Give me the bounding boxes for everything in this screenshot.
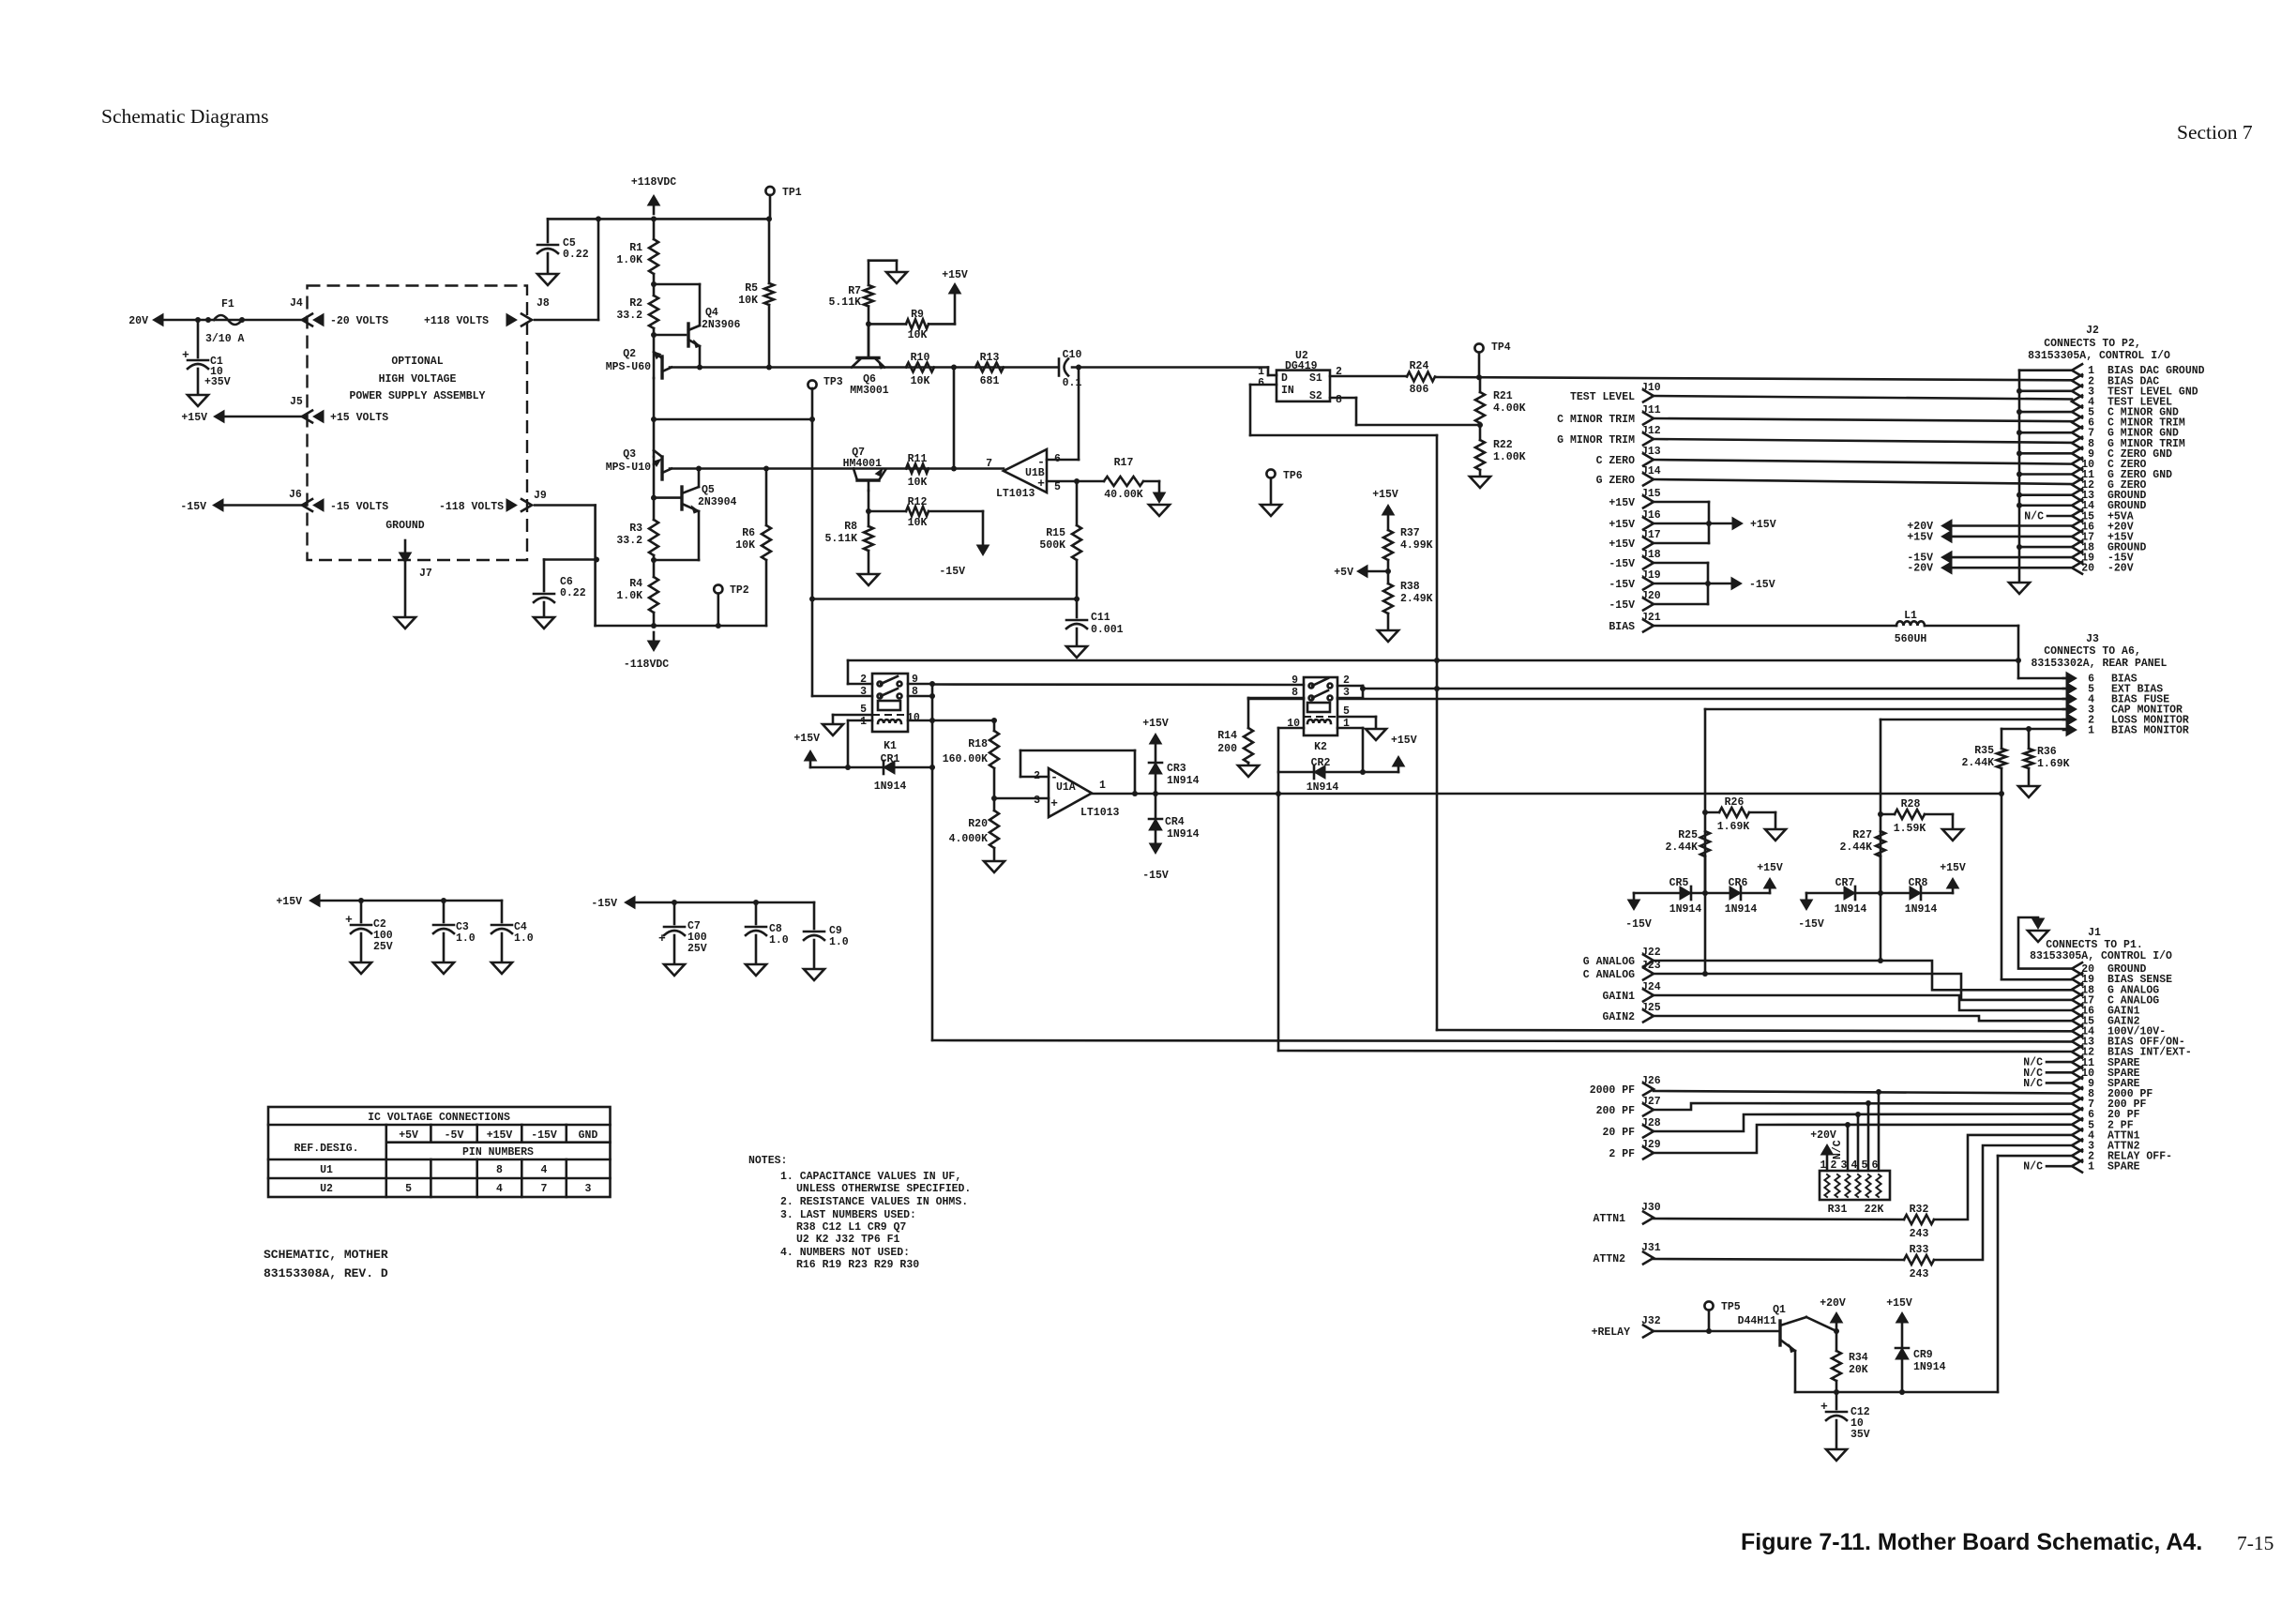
svg-text:200 PF: 200 PF [1596,1105,1636,1117]
wire J2 ground bus [2018,371,2021,581]
svg-text:+: + [1820,1400,1828,1414]
svg-text:-15V: -15V [1609,579,1635,591]
wire CR1 row [810,766,932,769]
ground below R17 [1149,505,1170,516]
svg-text:R32: R32 [1910,1204,1929,1216]
svg-text:J19: J19 [1641,569,1661,582]
svg-text:U1: U1 [320,1164,333,1176]
ground below TP6 [1261,505,1281,516]
svg-text:HM4001: HM4001 [843,458,883,470]
svg-text:D: D [1281,372,1288,385]
svg-text:+15V: +15V [1142,718,1169,730]
wire J11 to J2 [1654,418,2072,421]
diode CR6 1N914 [1705,892,1770,895]
svg-text:Q2: Q2 [623,348,636,360]
svg-text:1: 1 [1099,780,1106,792]
svg-text:J17: J17 [1641,529,1661,541]
resistor R5 [768,219,771,283]
wire R1/R2 junction to Q4 collector [654,283,700,286]
relay K2 box [1304,677,1337,735]
ground below C7 [664,964,685,976]
svg-text:N/C: N/C [1832,1140,1844,1159]
svg-text:TP5: TP5 [1721,1301,1741,1313]
wire U2 pin6 long route down [1250,384,1276,386]
wire J16 to +15V arrow [1654,523,1709,525]
svg-text:-5V: -5V [445,1129,464,1142]
svg-text:8: 8 [1336,394,1342,406]
svg-text:R6: R6 [742,527,755,539]
connector J2 pin 13 GROUND [2072,489,2082,501]
wire U1B pin6 up to bus [1047,459,1079,462]
wire U2 S2 to R21/R22 junction [1330,397,1356,400]
svg-text:R4: R4 [629,578,642,590]
wire LOSS MONITOR line [1881,719,2066,721]
wire L1 to J3 pin 6 [1925,625,2018,628]
svg-text:10K: 10K [908,517,928,529]
svg-text:-15V: -15V [1609,558,1635,570]
ground below R14 [1238,765,1259,777]
ground below C6 [534,617,554,629]
svg-text:0.22: 0.22 [560,587,586,599]
svg-text:2: 2 [1831,1159,1837,1172]
svg-text:GAIN2: GAIN2 [1602,1011,1635,1023]
svg-text:J12: J12 [1641,425,1661,437]
svg-text:IN: IN [1281,385,1294,397]
svg-text:9: 9 [1291,674,1298,687]
transistor Q2 MPS-U60 [654,352,662,358]
connector J1 pin 10 SPARE [2072,1067,2082,1079]
svg-text:8: 8 [496,1164,503,1176]
svg-text:25V: 25V [687,943,707,955]
svg-text:F1: F1 [221,298,234,311]
wire BIAS FUSE line [1248,698,1304,701]
svg-text:R22: R22 [1493,439,1513,451]
svg-text:R2: R2 [629,297,642,310]
svg-text:5.11K: 5.11K [828,296,861,309]
svg-text:10K: 10K [911,375,930,387]
svg-text:R15: R15 [1046,527,1065,539]
resistor R3 [653,464,656,520]
svg-text:J28: J28 [1641,1117,1661,1129]
resistor R21 [1479,377,1482,392]
svg-text:MPS-U10: MPS-U10 [606,462,651,474]
wire R31 pin5 to 200PF line [1867,1103,1870,1171]
wire BIAS OFF/ON- line to J1 pin13 [932,1040,2072,1041]
svg-text:Section 7: Section 7 [2177,121,2253,144]
wire J27 to J1 pin7 [1654,1103,2072,1110]
resistor R14 200 [1247,698,1250,728]
svg-text:R17: R17 [1114,457,1134,469]
svg-text:J5: J5 [290,396,303,408]
resistor R8 [868,491,870,526]
svg-text:CR8: CR8 [1909,877,1928,889]
svg-text:7: 7 [541,1183,548,1195]
svg-text:1: 1 [1820,1159,1827,1172]
ground below J2 bus [2009,583,2030,594]
connector J2 pin 18 GROUND [2072,541,2082,553]
resistor R36 1.69K [2028,729,2031,749]
svg-text:J18: J18 [1641,549,1661,561]
svg-text:R26: R26 [1725,796,1745,809]
svg-text:Schematic Diagrams: Schematic Diagrams [101,105,269,128]
svg-text:POWER SUPPLY ASSEMBLY: POWER SUPPLY ASSEMBLY [350,390,486,402]
svg-text:+20V: +20V [1810,1129,1836,1142]
fuse F1 [214,315,242,325]
connector J1 pin 17 C ANALOG [2072,993,2082,1006]
svg-text:20V: 20V [128,315,148,327]
capacitor C3 1.0 [443,901,446,922]
svg-text:1.69K: 1.69K [1717,821,1750,833]
svg-text:TEST LEVEL: TEST LEVEL [1570,391,1635,403]
node +5V tap [1357,566,1367,578]
svg-text:R38 C12 L1 CR9 Q7: R38 C12 L1 CR9 Q7 [796,1221,906,1234]
svg-text:BIAS MONITOR: BIAS MONITOR [2111,725,2189,737]
connector J2 pin 12 G ZERO [2072,478,2082,491]
connector J2 pin 15 +5VA [2072,509,2082,522]
resistor R32 243 [1904,1215,1934,1224]
wire R10-R11 tie [953,368,956,469]
connector J1 pin 3 ATTN2 [2072,1139,2082,1151]
wire W448 to TP3 column [654,418,812,421]
wire J2 pin 5 ground stub [2019,411,2072,414]
resistor R9 [869,323,906,326]
svg-text:+15V: +15V [793,733,820,745]
svg-text:+15V: +15V [487,1129,513,1142]
svg-text:GROUND: GROUND [385,520,425,532]
wire J8 to rail [535,319,598,322]
svg-text:+35V: +35V [204,376,231,388]
op-amp U1B LT1013 [1004,449,1047,492]
wire long bus K1 pin2 to J3 BIAS [848,659,2018,662]
wire TP3 column [811,388,814,419]
svg-text:-15V: -15V [531,1129,557,1142]
wire K1 right vertical to BIAS OFF line [931,684,934,1040]
svg-text:560UH: 560UH [1895,633,1927,645]
ground below C11 [1066,646,1087,658]
node -15V at CR7 [1805,893,1808,899]
diode CR1 1N914 [884,761,895,774]
svg-text:HIGH VOLTAGE: HIGH VOLTAGE [379,373,457,386]
svg-text:R21: R21 [1493,390,1513,402]
wire J1 pin20 ground bracket [2018,917,2072,969]
wire J18 bracket [1654,562,1708,565]
svg-text:681: 681 [980,375,1000,387]
wire J9 to bottom rail [535,504,596,507]
svg-text:J25: J25 [1641,1002,1661,1014]
svg-text:+15V: +15V [276,896,302,908]
svg-text:C MINOR TRIM: C MINOR TRIM [1557,414,1635,426]
svg-text:REF.DESIG.: REF.DESIG. [294,1143,358,1155]
connector J2 pin 7 G MINOR GND [2072,427,2082,439]
svg-text:R31: R31 [1828,1204,1848,1216]
svg-text:J10: J10 [1641,382,1661,394]
connector J3 pin 4 BIAS FUSE [2066,693,2077,705]
svg-text:J9: J9 [534,490,547,502]
svg-text:+5V: +5V [399,1129,418,1142]
svg-text:-20 VOLTS: -20 VOLTS [330,315,388,327]
svg-text:4: 4 [1851,1159,1858,1172]
wire bus to U2 pin D [1267,368,1270,376]
relay K1 box [872,674,908,732]
svg-text:-15V: -15V [1749,579,1775,591]
wire J10 to J2 [1654,396,2072,400]
svg-text:33.2: 33.2 [616,535,642,547]
svg-text:R10: R10 [911,352,930,364]
test point TP1 [765,187,774,195]
svg-text:1.0K: 1.0K [616,590,642,602]
svg-text:K2: K2 [1314,741,1327,753]
wire U1A pin2 feedback loop [1020,776,1049,779]
resistor R27 2.44K [1876,831,1885,856]
svg-text:U1A: U1A [1056,781,1076,794]
svg-text:-15V: -15V [1798,918,1824,931]
wire K1 pin5 to ground [833,714,872,717]
svg-text:+15V: +15V [1372,489,1398,501]
ground above Q6 [886,272,907,283]
connector J1 pin 2 RELAY OFF- [2072,1150,2082,1162]
svg-text:20: 20 [2081,563,2094,575]
svg-text:PIN NUMBERS: PIN NUMBERS [462,1146,534,1159]
ground below R38 [1378,630,1398,642]
wire K1 pin3 stub [812,695,872,698]
svg-text:R8: R8 [844,521,857,533]
node -15V below CR4 [1155,830,1157,842]
connector J2 pin 4 TEST LEVEL [2072,395,2082,407]
connector J1 pin 6 20 PF [2072,1108,2082,1120]
wire K1 pin10 down [908,720,932,722]
resistor R4 [649,577,658,613]
ground below C4 [491,962,512,974]
wire 20V to J4 [163,319,307,322]
svg-text:243: 243 [1910,1228,1929,1240]
svg-text:G ANALOG: G ANALOG [1583,956,1635,968]
svg-text:TP3: TP3 [823,376,843,388]
svg-text:+15V: +15V [1609,497,1635,509]
wire K2 pin5 to ground [1337,716,1376,719]
svg-text:1N914: 1N914 [1167,775,1200,787]
svg-text:J6: J6 [289,489,302,501]
wire CR2 row [1278,771,1398,774]
wire R35 down to J1 pin19 BIAS SENSE [2001,794,2003,979]
connector J2 pin 6 C MINOR TRIM [2072,417,2082,429]
resistor R7 [868,261,870,285]
wire Q2 emitter column down to Q3 [653,378,656,457]
svg-text:1.69K: 1.69K [2037,758,2070,770]
wire J14 to J2 [1654,479,2072,484]
wire K2 pins 2/3 to EXT BIAS [1337,685,1363,688]
svg-text:10K: 10K [735,539,755,552]
inductor L1 560UH [1896,621,1925,626]
svg-text:-20V: -20V [1907,563,1933,575]
svg-text:20 PF: 20 PF [1602,1127,1635,1139]
svg-text:7-15: 7-15 [2237,1532,2273,1554]
connector J1 pin 11 SPARE [2072,1056,2082,1068]
wire RELAY OFF- up to J1 pin2 [1997,1156,2000,1392]
wire J25 to J1 [1654,1016,2072,1021]
wire J21 to L1 [1654,625,1896,628]
svg-text:CR4: CR4 [1165,816,1185,828]
wire K2 pin10 column to BIAS INT/EXT line [1277,772,1280,1051]
resistor R22 [1475,440,1485,470]
wire main bus Q2-Q6-R10-R13-C10 [670,366,1057,369]
svg-text:+15V: +15V [1609,519,1635,531]
svg-text:J7: J7 [419,568,432,580]
resistor R20 4.000K [989,810,999,848]
resistor R12 [869,510,906,513]
svg-text:4.00K: 4.00K [1493,402,1526,415]
svg-text:Q3: Q3 [623,448,636,461]
svg-text:C ANALOG: C ANALOG [1583,969,1635,981]
svg-text:R16 R19 R23 R29 R30: R16 R19 R23 R29 R30 [796,1259,919,1271]
wire +118V rail [548,218,769,220]
capacitor C1 [197,320,200,357]
capacitor C9 1.0 [813,902,816,929]
svg-text:2.44K: 2.44K [1839,841,1872,854]
diode CR3 1N914 [1149,763,1162,774]
svg-text:J20: J20 [1641,590,1661,602]
wire R24 to J2 pin 2 [1435,377,2072,380]
wire J29 to J1 pin5 [1654,1125,2072,1153]
svg-text:+RELAY: +RELAY [1592,1326,1631,1339]
svg-text:LT1013: LT1013 [996,488,1035,500]
connector J2 pin 3 TEST LEVEL GND [2072,385,2082,397]
svg-text:J3: J3 [2086,633,2099,645]
svg-text:R33: R33 [1910,1244,1929,1256]
svg-text:DG419: DG419 [1285,360,1318,372]
svg-text:R11: R11 [908,453,928,465]
svg-text:-15V: -15V [1625,918,1652,931]
svg-text:1N914: 1N914 [874,780,907,793]
connector J1 pin 9 SPARE [2072,1077,2082,1089]
connector J7 with ground [400,553,412,563]
wire -118V bottom rail [596,625,766,628]
svg-text:1. CAPACITANCE VALUES IN UF,: 1. CAPACITANCE VALUES IN UF, [780,1171,961,1183]
diode CR2 1N914 [1314,765,1325,779]
resistor R10 [906,363,934,372]
svg-text:CR1: CR1 [881,753,900,765]
connector J2 pin 19 -15V [2072,552,2082,564]
wire J30 to R32 [1654,1219,1904,1220]
svg-text:243: 243 [1910,1268,1929,1280]
svg-text:2. RESISTANCE VALUES IN OHMS.: 2. RESISTANCE VALUES IN OHMS. [780,1196,968,1208]
svg-text:+118 VOLTS: +118 VOLTS [424,315,489,327]
connector J1 pin 15 GAIN2 [2072,1015,2082,1027]
wire K1 pin9 to bus B [908,683,932,686]
svg-text:5: 5 [405,1183,412,1195]
connector J2 pin 10 C ZERO [2072,458,2082,470]
svg-text:Q5: Q5 [702,484,715,496]
svg-text:J26: J26 [1641,1075,1661,1087]
wire J19 to -15V arrow [1654,583,1708,585]
svg-text:2N3904: 2N3904 [698,496,737,508]
connector J1 pin 19 BIAS SENSE [2072,973,2082,985]
svg-text:806: 806 [1410,384,1429,396]
svg-text:5: 5 [1862,1159,1868,1172]
svg-text:1N914: 1N914 [1167,828,1200,841]
svg-text:1N914: 1N914 [1669,903,1702,916]
wire K2 pin10 down to CR2 [1278,727,1304,730]
svg-text:J4: J4 [290,297,303,310]
svg-text:R27: R27 [1852,829,1872,841]
wire J3 pin6 BIAS [2018,677,2066,680]
svg-text:10: 10 [907,712,920,724]
wire J15 bracket [1654,501,1709,504]
svg-text:4.99K: 4.99K [1400,539,1433,552]
svg-text:R13: R13 [980,352,1000,364]
svg-text:R36: R36 [2037,746,2057,758]
connector J1 pin 14 100V/10V- [2072,1025,2082,1038]
svg-text:1N914: 1N914 [1307,781,1339,794]
svg-text:1.0: 1.0 [829,936,849,948]
svg-text:NOTES:: NOTES: [748,1155,787,1167]
svg-text:S2: S2 [1309,390,1322,402]
svg-text:R28: R28 [1901,798,1921,810]
svg-text:0.22: 0.22 [563,249,589,261]
svg-text:1: 1 [860,716,867,728]
relay K1 coil [878,701,900,710]
svg-text:GAIN1: GAIN1 [1602,991,1635,1003]
wire U1B pin5 to R17 [1047,480,1104,483]
svg-text:83153305A, CONTROL I/O: 83153305A, CONTROL I/O [2028,350,2170,362]
svg-text:+15V: +15V [1907,531,1933,543]
svg-text:U2: U2 [320,1183,333,1195]
svg-text:2N3906: 2N3906 [702,319,741,331]
capacitor C2 100/25V [360,901,363,922]
diode CR4 1N914 [1155,794,1157,819]
svg-text:2000 PF: 2000 PF [1590,1084,1635,1097]
capacitor C8 1.0 [755,902,758,924]
resistor R11 [906,464,929,474]
transistor Q4 2N3906 [654,334,686,337]
ground below R20 [984,861,1004,872]
ground below C12 [1826,1449,1847,1461]
svg-text:1N914: 1N914 [1835,903,1867,916]
svg-text:0.001: 0.001 [1091,624,1124,636]
wire J23 to J1 [1654,974,2072,1000]
node +15V at CR8 [1952,887,1955,893]
svg-text:4.000K: 4.000K [949,833,989,845]
wire CAP MONITOR column [1704,709,1707,974]
resistor pack R31 22K [1820,1171,1890,1200]
svg-text:3: 3 [1034,795,1040,807]
node +15V at CR1 [805,750,817,761]
svg-text:CONNECTS TO P2,: CONNECTS TO P2, [2044,338,2141,350]
wire J2 pin 9 ground stub [2019,452,2072,455]
connector J2 pin 1 BIAS DAC GROUND [2072,364,2082,376]
svg-text:-15 VOLTS: -15 VOLTS [330,501,388,513]
capacitor C12 [1835,1392,1838,1409]
connector J3 pin 3 CAP MONITOR [2066,704,2077,716]
ground below R26 [1765,829,1786,841]
wire R31 pin6 to 2000PF line [1878,1092,1881,1171]
svg-text:J15: J15 [1641,488,1661,500]
relay K2 coil [1307,703,1330,712]
svg-text:R20: R20 [968,818,988,830]
resistor R38 [1383,583,1393,614]
svg-text:J2: J2 [2086,325,2099,337]
svg-text:D44H11: D44H11 [1738,1315,1777,1327]
connector J2 pin 17 +15V [2072,530,2082,542]
resistor R15 [1076,481,1079,525]
svg-text:CR6: CR6 [1729,877,1748,889]
resistor R2 [649,295,658,328]
svg-text:J13: J13 [1641,446,1661,458]
op-amp U1A LT1013 [1049,768,1092,817]
diode CR5 1N914 [1634,892,1705,895]
wire R17 to ground [1158,481,1161,492]
capacitor C7 100/25V [673,902,676,924]
svg-text:1: 1 [2088,725,2094,737]
